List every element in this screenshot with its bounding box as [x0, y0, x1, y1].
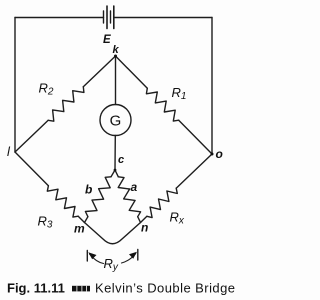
galvanometer G	[100, 105, 131, 136]
resistor Rx	[147, 188, 177, 217]
wire top-right horizontal	[114, 17, 212, 19]
wire R1 to o	[179, 120, 212, 154]
wire left vertical	[14, 18, 16, 153]
svg-text:c: c	[118, 154, 124, 166]
Ry dimension arrow right arc	[122, 254, 136, 264]
svg-text:R2: R2	[39, 81, 54, 98]
wire R3 to m	[78, 216, 84, 222]
wire galvanometer to c	[114, 136, 116, 171]
wire Rx to n	[141, 216, 147, 222]
svg-text:b: b	[85, 183, 92, 197]
Ry arrowhead right	[129, 252, 137, 259]
Ry dimension tick right	[137, 250, 139, 261]
resistor R3	[47, 186, 78, 217]
svg-text:E: E	[103, 34, 111, 46]
wire l to R3 (lower-left diagonal)	[15, 152, 48, 186]
svg-text:k: k	[113, 44, 120, 56]
svg-text:l: l	[7, 144, 11, 159]
Ry dimension arrow left arc	[90, 254, 104, 264]
caption separator blob	[72, 286, 90, 292]
svg-text:R3: R3	[38, 214, 53, 231]
svg-text:Kelvin’s Double Bridge: Kelvin’s Double Bridge	[95, 281, 235, 296]
Ry dimension tick left	[86, 251, 88, 262]
Ry arrowhead left	[88, 252, 96, 259]
svg-text:n: n	[141, 221, 148, 235]
node k	[114, 55, 117, 58]
wire c to resistor b	[111, 170, 115, 177]
resistor R2	[48, 87, 84, 122]
wire R2 to l	[15, 120, 48, 152]
resistor b	[85, 177, 111, 217]
svg-text:Ry: Ry	[104, 256, 119, 273]
wire c to resistor a	[115, 170, 118, 177]
svg-text:m: m	[74, 222, 85, 236]
resistor R1	[146, 88, 178, 121]
node c	[114, 169, 117, 172]
wire right vertical	[211, 18, 213, 155]
svg-text:Rx: Rx	[170, 210, 185, 227]
wire yoke m to n (Ry link)	[85, 223, 141, 244]
resistor a	[118, 177, 140, 217]
wire k to R1 (upper-right diagonal)	[116, 56, 148, 88]
wire k to R2 (upper-left diagonal)	[83, 56, 115, 87]
svg-text:a: a	[131, 180, 138, 194]
svg-text:G: G	[110, 113, 122, 130]
wire top-left horizontal	[15, 17, 104, 19]
svg-text:Fig. 11.11: Fig. 11.11	[7, 281, 65, 296]
svg-text:R1: R1	[172, 85, 187, 102]
svg-text:o: o	[216, 147, 223, 161]
wire o to Rx (lower-right diagonal)	[176, 154, 212, 188]
wire resistor b to m	[85, 217, 88, 223]
node o	[211, 153, 214, 156]
wire resistor a to n	[138, 217, 141, 223]
wire k to galvanometer	[115, 56, 117, 105]
battery E	[104, 6, 114, 29]
